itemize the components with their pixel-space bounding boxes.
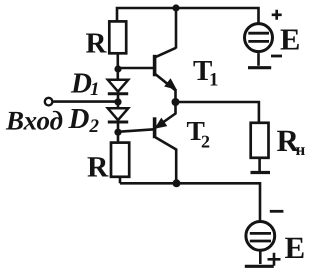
wire top source bottom lead [257,53,260,66]
transistor T1 (NPN) [155,48,176,102]
wire T1 base lead [118,67,155,70]
wire bottom rail from R bottom to -E source [120,183,260,220]
node output (emitters / Rn) [172,98,180,106]
resistor R2 (lower bias resistor) [111,143,129,177]
minus sign bottom source [270,210,284,213]
wire bottom R bottom lead [119,177,122,184]
svg-text:Вход: Вход [5,106,63,136]
diode D2 [108,108,128,122]
node R1 / D1 / T1 base [114,65,121,72]
diode D1 [108,80,128,94]
wire bottom source bottom lead [259,252,262,265]
svg-text:1: 1 [209,70,219,91]
node input / D1-D2 [114,98,121,105]
resistor Rn (load) [251,123,269,158]
transistor T2 (PNP) [155,102,177,183]
svg-text:E: E [280,23,300,57]
wire output node to Rn [176,102,259,123]
svg-text:2: 2 [201,132,210,152]
input terminal circle [45,98,53,106]
plus sign bottom source [268,253,281,266]
arrowhead T2 emitter [155,118,168,129]
svg-text:R: R [86,28,108,60]
wire top rail from R top to +E source [117,8,259,23]
minus sign top source [271,55,282,58]
wire diode chain column [117,53,120,80]
svg-text:D: D [70,68,92,100]
node top rail / T1 collector [172,4,179,11]
wire input lead [53,100,118,103]
svg-text:E: E [285,230,306,265]
wire T1 collector riser [175,8,178,48]
terminal bar under Rn [251,171,271,174]
resistor R1 (upper bias resistor) [109,21,126,53]
node D2 / R2 / T2 base [114,129,121,136]
wire Rn bottom lead [258,158,261,172]
svg-text:н: н [296,140,306,159]
svg-text:2: 2 [89,116,100,137]
source E bottom (battery symbol) [245,222,275,267]
svg-text:1: 1 [90,79,100,100]
svg-text:R: R [87,151,109,183]
plus sign top source [272,10,282,20]
svg-text:D: D [68,103,90,135]
source E top (battery symbol) [245,24,273,68]
arrowhead T1 emitter [164,78,177,90]
wire T2 base lead [118,129,154,132]
node bottom rail / T2 collector [173,179,181,187]
